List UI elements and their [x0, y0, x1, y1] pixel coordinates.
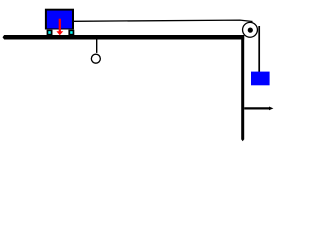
marker circle bob [91, 54, 100, 63]
red force arrow on cart [56, 19, 63, 36]
string from pulley down to hanging mass [258, 26, 260, 72]
hanging mass [251, 72, 270, 86]
table leg [241, 40, 244, 142]
small arrow pointing right from leg [244, 107, 273, 111]
table top [3, 35, 245, 40]
pulley axle dot [248, 28, 253, 33]
string from cart to pulley [74, 20, 253, 21]
marker rod below table [96, 40, 98, 53]
cart body border [45, 9, 74, 30]
left wheel [47, 30, 53, 36]
cart body fill [47, 11, 72, 29]
right wheel [68, 30, 74, 36]
pulley wheel [243, 22, 258, 37]
